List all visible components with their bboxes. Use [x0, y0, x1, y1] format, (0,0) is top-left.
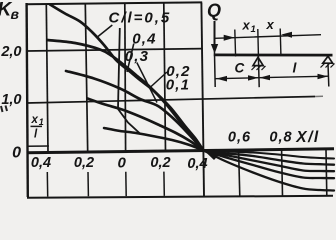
- bottom dimension line: [215, 76, 328, 79]
- gridline below axis at X/l=0.6: [239, 151, 240, 197]
- gridline horizontal Kv=1.0: [27, 97, 315, 104]
- tick below axis at 0,2 left: [87, 172, 89, 196]
- arrowhead of force Q: [211, 44, 218, 54]
- gridline Kv=1.0 faded tail: [315, 95, 323, 97]
- tick below axis at 0,2 right: [163, 172, 165, 196]
- x-axis Kv=0 thick: [27, 149, 334, 153]
- svg-text:0,3: 0,3: [125, 48, 149, 65]
- curve C/l=0.4 left branch: [48, 40, 204, 150]
- svg-text:x: x: [266, 17, 275, 32]
- curve C/l=0.5 left branch: [50, 5, 203, 151]
- arrowhead right on upper dim line: [224, 35, 235, 41]
- svg-text:0,2: 0,2: [150, 155, 170, 171]
- svg-text:x: x: [31, 114, 39, 126]
- gridline vertical at tick 0,4 left: [46, 4, 48, 153]
- left edge scan artifacts: [1, 106, 7, 113]
- beam: [214, 54, 333, 57]
- curve C/l=0.3 right branch: [203, 150, 334, 171]
- svg-text:0,6: 0,6: [228, 130, 251, 146]
- curve C/l=0.5 right branch: [203, 150, 334, 190]
- extension below Q line: [213, 44, 216, 87]
- axis Y (left vertical): [27, 3, 28, 197]
- label leaders: [98, 25, 167, 134]
- bottom frame line: [27, 196, 333, 198]
- force Q line: [214, 21, 216, 47]
- curve C/l=0.2 right branch: [203, 150, 334, 164]
- bottom dim arrow pointing right into support A: [248, 75, 259, 80]
- svg-text:C: C: [235, 61, 245, 76]
- svg-text:1: 1: [39, 117, 44, 127]
- tick below axis at 0,4 left: [46, 172, 48, 197]
- leader from C/l=0,5 label to curve 0.5: [98, 25, 112, 37]
- svg-text:0,2: 0,2: [74, 155, 94, 171]
- fraction bar: [31, 125, 43, 127]
- top frame line: [27, 2, 203, 4]
- gridline vertical at tick 0,2 left: [85, 4, 87, 153]
- curve C/l=0.3 left branch: [66, 71, 203, 150]
- curves: [48, 5, 335, 191]
- svg-text:0,1: 0,1: [166, 77, 190, 94]
- leader from 0,2 label: [150, 72, 167, 88]
- svg-text:x: x: [242, 18, 251, 33]
- tick over support A: [257, 29, 260, 55]
- leader from 0,4 label: [127, 44, 134, 73]
- svg-text:Q: Q: [207, 1, 221, 21]
- svg-text:C/l=0,5: C/l=0,5: [109, 10, 172, 27]
- box bottom line under x1/l label: [27, 145, 49, 147]
- support B triangle: [323, 56, 333, 63]
- arrow marker on curve at zero crossing: [205, 151, 221, 160]
- hatching under support A: [252, 66, 266, 70]
- gridline horizontal Kv=2.0: [27, 49, 202, 51]
- right border gridline X/l=0.4 full height: [201, 3, 204, 196]
- curve C/l=0.1 left branch: [104, 128, 203, 150]
- curve C/l=0.1 right branch: [203, 150, 334, 158]
- svg-text:0,4: 0,4: [187, 156, 207, 172]
- hatching under support B: [321, 64, 335, 68]
- support A triangle: [253, 57, 263, 65]
- svg-text:в: в: [11, 6, 20, 22]
- extension below support A: [257, 56, 260, 87]
- svg-text:0: 0: [12, 145, 21, 162]
- svg-text:0: 0: [118, 155, 127, 172]
- leader from 0,3 label to curve 0.3: [137, 63, 157, 103]
- svg-text:X/l: X/l: [295, 129, 319, 146]
- arrowhead left on upper dim line: [281, 32, 292, 38]
- svg-text:1: 1: [251, 24, 256, 35]
- bottom dim arrow pointing left from support A: [259, 75, 270, 80]
- gridline below axis at right edge: [325, 150, 328, 195]
- svg-text:2,0: 2,0: [0, 44, 21, 60]
- curve C/l=0.2 left branch: [88, 99, 204, 151]
- curve C/l=0.4 right branch: [203, 150, 334, 178]
- gridline vertical at tick 0,2 right: [164, 3, 166, 152]
- svg-text:0,4: 0,4: [31, 155, 51, 171]
- tick at x mark: [279, 29, 282, 55]
- upper dimension line: [215, 35, 321, 39]
- gridline below axis at X/l=0.8: [281, 150, 284, 196]
- bottom dim arrow at right end: [318, 74, 329, 79]
- svg-text:0,4: 0,4: [132, 31, 156, 48]
- gridline vertical at tick 0: [124, 3, 127, 152]
- bottom dim arrow at left end (tip at Q line): [216, 76, 227, 82]
- svg-text:1,0: 1,0: [1, 92, 21, 108]
- svg-text:0,8: 0,8: [269, 130, 292, 146]
- long leader under label l (to curve 0.2): [118, 28, 141, 134]
- tick below axis at 0: [125, 172, 127, 196]
- tick at x1 start: [234, 30, 237, 57]
- extension below support B: [327, 64, 330, 87]
